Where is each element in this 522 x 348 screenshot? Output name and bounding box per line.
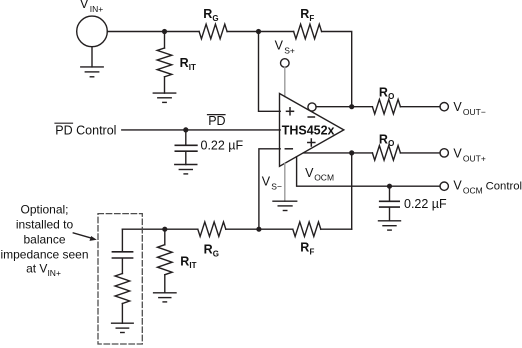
resistor RF (top) [294, 24, 322, 39]
label 0.22 uF (PD) [201, 139, 244, 153]
resistor RIT (top) [157, 32, 172, 94]
resistor RG (top) [199, 24, 227, 39]
wire (bottom junction to RF) [259, 228, 293, 230]
ground (RIT bottom) [154, 293, 176, 302]
wire (RG to RF top) [227, 31, 294, 33]
svg-text:OCM: OCM [463, 185, 483, 195]
svg-text:OUT+: OUT+ [463, 153, 486, 163]
resistor (balance network) [115, 274, 130, 304]
wire (feedback bottom vertical) [351, 153, 353, 229]
svg-text:Control: Control [486, 181, 522, 193]
wire VOCM pin [297, 157, 440, 187]
capacitor (balance network) [112, 252, 132, 274]
label RIT (bottom) [180, 254, 196, 270]
wire (RO to VOUT-) [400, 106, 440, 108]
source VIN+ [77, 16, 108, 67]
svg-text:F: F [310, 247, 315, 256]
resistor RO (bottom) [372, 146, 400, 161]
ground (under source) [81, 67, 103, 77]
label VOCM Control [453, 179, 522, 196]
inversion bubble (output-) [308, 103, 316, 111]
label VOCM (pin) [305, 166, 334, 183]
wire (out- to RO) [316, 106, 372, 108]
terminal VOUT- [440, 103, 448, 111]
wire (balance resistor to ground) [121, 304, 123, 324]
wire (PD control to amp) [122, 129, 280, 131]
svg-text:O: O [388, 92, 394, 101]
node (out+ feedback junction) [349, 150, 354, 155]
node (RG/RF bottom junction) [256, 227, 261, 232]
svg-text:THS452x: THS452x [282, 124, 335, 138]
svg-text:V: V [453, 100, 462, 114]
svg-text:R: R [379, 85, 388, 99]
pin - (output, inverted) [308, 116, 314, 118]
ground (VOCM cap) [379, 221, 401, 230]
svg-text:R: R [204, 243, 213, 257]
wire (box cap to RG bottom) [122, 228, 197, 230]
terminal VOCM control [440, 182, 448, 190]
label VS+ [275, 39, 295, 56]
svg-text:OCM: OCM [314, 173, 334, 183]
label PD Control [55, 123, 116, 137]
svg-text:0.22 µF: 0.22 µF [201, 139, 244, 153]
ground (RIT top) [153, 93, 175, 102]
pin - (input) [285, 148, 292, 150]
svg-text:R: R [180, 56, 189, 70]
svg-text:IT: IT [189, 261, 196, 270]
svg-text:IN+: IN+ [90, 4, 104, 14]
wire (- input feed) [259, 149, 280, 229]
svg-text:V: V [80, 0, 89, 11]
wire (input feed down to + input) [259, 32, 281, 112]
overline (PD Control) [55, 122, 73, 124]
arrow (note to box) [73, 233, 97, 241]
wire (RG bottom to junction) [226, 228, 259, 230]
node (RIT bottom junction) [162, 227, 167, 232]
capacitor 0.22uF (VOCM) [380, 186, 400, 221]
svg-text:PD Control: PD Control [55, 123, 116, 137]
label VIN+ [80, 0, 103, 14]
svg-text:R: R [300, 241, 309, 255]
svg-text:S−: S− [271, 181, 282, 191]
svg-text:R: R [379, 132, 388, 146]
node (PD bypass junction) [183, 127, 188, 132]
label PD (wire) [208, 114, 225, 128]
svg-text:V: V [453, 146, 462, 160]
svg-text:V: V [305, 166, 314, 180]
svg-text:G: G [213, 249, 219, 258]
ground (balance network) [112, 323, 134, 332]
wire (out+ to RO bottom) [304, 152, 373, 154]
ground (VS-) [273, 201, 297, 210]
pin + (output) [308, 139, 315, 146]
svg-text:0.22 µF: 0.22 µF [404, 197, 447, 211]
node (out- feedback junction) [349, 104, 354, 109]
svg-text:Optional;: Optional; [20, 203, 68, 217]
label 0.22 uF (VOCM) [404, 197, 447, 211]
label THS452x [282, 124, 335, 138]
svg-text:installed to: installed to [16, 218, 74, 232]
label RF (top) [300, 7, 314, 23]
terminal VOUT+ [440, 149, 448, 157]
resistor RG (bottom) [198, 222, 226, 237]
wire (box branch stem) [121, 229, 123, 251]
ground (PD cap) [175, 165, 197, 174]
node (RIT top junction) [162, 29, 167, 34]
label VOUT+ [453, 146, 485, 163]
label RG (top) [203, 7, 218, 23]
svg-text:V: V [453, 179, 462, 193]
svg-text:V: V [262, 175, 271, 189]
resistor RF (bottom) [293, 222, 321, 237]
svg-text:O: O [388, 139, 394, 148]
wire (source to RG top) [107, 31, 199, 33]
svg-text:F: F [309, 14, 314, 23]
svg-text:R: R [300, 7, 309, 21]
svg-text:balance: balance [23, 233, 65, 247]
wire (RO bottom to VOUT+) [400, 152, 440, 154]
wire VS+ pin (gray) [284, 68, 286, 97]
svg-text:R: R [180, 254, 189, 268]
svg-text:OUT−: OUT− [463, 107, 486, 117]
label RF (bottom) [300, 241, 314, 257]
resistor RO (top) [372, 99, 400, 114]
terminal VS+ [281, 59, 290, 68]
svg-text:at VIN+: at VIN+ [26, 262, 61, 278]
wire (RF top to feedback corner) [322, 32, 352, 107]
capacitor 0.22uF (PD) [175, 130, 197, 165]
op-amp THS452x [280, 94, 344, 167]
wire (RF bottom to feedback) [321, 228, 352, 230]
annotation text (optional note) [0, 203, 88, 278]
svg-text:G: G [212, 14, 218, 23]
label VOUT- [453, 100, 485, 117]
node (RG/RF junction) [256, 29, 261, 34]
label RO (bottom) [379, 132, 394, 148]
label VS- [262, 175, 282, 192]
label RO (top) [379, 85, 394, 101]
label RG (bottom) [204, 243, 219, 259]
resistor RIT (bottom) [158, 229, 173, 293]
label RIT (top) [180, 56, 196, 72]
svg-text:IT: IT [189, 63, 196, 72]
node (VOCM bypass junction) [387, 184, 392, 189]
svg-text:PD: PD [208, 114, 225, 128]
svg-text:R: R [203, 7, 212, 21]
wire VS- pin (gray) [284, 163, 286, 201]
svg-text:impedance seen: impedance seen [0, 248, 88, 262]
dashed box (optional network) [98, 214, 142, 344]
pin + (input) [287, 108, 294, 115]
svg-text:S+: S+ [284, 46, 295, 56]
svg-text:V: V [275, 39, 284, 53]
overline (PD wire label) [208, 114, 226, 116]
